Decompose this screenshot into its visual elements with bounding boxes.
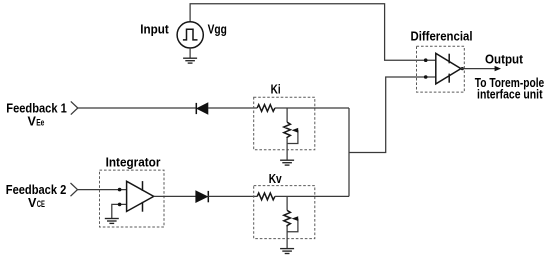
dashed box Differencial	[417, 46, 465, 92]
svg-text:Input: Input	[140, 22, 169, 37]
svg-text:Feedback 1: Feedback 1	[6, 101, 67, 116]
resistor (series, in Kv)	[257, 193, 275, 200]
svg-text:Ki: Ki	[271, 82, 281, 97]
resistor (series, in Ki)	[257, 105, 275, 112]
wire: Vgg source top to differential input 1	[190, 4, 436, 60]
rheostat wiper arrow (Ki)	[287, 128, 298, 144]
wire: Feedback 1 to diode D1	[78, 107, 197, 109]
svg-text:V: V	[28, 115, 37, 129]
svg-text:interface unit: interface unit	[477, 87, 543, 102]
junction dot output apex	[461, 67, 464, 70]
pulse source Vgg (circle with pulse waveform)	[177, 22, 203, 48]
ground (inside Integrator)	[105, 219, 119, 224]
ground (below Kv)	[280, 249, 294, 254]
ground (below Vgg source)	[183, 58, 197, 63]
op-amp U1 (Integrator)	[127, 181, 154, 212]
wire: Kv shunt stem down	[286, 196, 288, 210]
wire: Ki shunt stem down	[286, 108, 288, 122]
op-amp U2 (Differencial)	[436, 53, 461, 84]
junction dot differential input 1	[424, 58, 428, 62]
wire: Feedback 2 to integrator input +	[78, 189, 127, 191]
input port chevron Feedback 1	[71, 101, 78, 114]
dashed box Ki	[254, 97, 315, 150]
svg-text:Differencial: Differencial	[411, 28, 473, 43]
wire: integrator input 2 to ground branch	[112, 204, 127, 218]
rheostat (variable resistor, in Kv)	[284, 210, 291, 226]
wire: node bus to differential input 2	[349, 77, 436, 153]
wire: diode D2 to resistor in Kv	[208, 195, 257, 197]
svg-text:Ee: Ee	[36, 118, 44, 128]
wire: Kv resistor to node at x349	[275, 195, 349, 197]
svg-text:Vgg: Vgg	[208, 22, 227, 37]
junction dot integrator input 1	[118, 188, 122, 192]
dashed box Integrator	[100, 170, 165, 227]
svg-text:Kv: Kv	[269, 171, 283, 186]
rheostat wiper arrow (Kv)	[287, 216, 298, 232]
svg-text:V: V	[28, 196, 37, 210]
wire: output with arrowhead	[461, 66, 501, 71]
junction dot differential input 2	[424, 75, 428, 79]
rheostat (variable resistor, in Ki)	[284, 122, 291, 138]
wire: Kv rheostat to ground	[286, 227, 288, 249]
wire: diode D1 to resistor in Ki	[208, 107, 257, 109]
wire: integrator output to diode D2	[154, 195, 196, 197]
diode D1 (pointing left)	[196, 103, 208, 114]
wire: source bottom to ground	[189, 48, 191, 58]
wire: Ki rheostat to ground	[286, 138, 288, 160]
ground (below Ki)	[280, 160, 294, 165]
wire: Ki resistor to node at x349	[275, 107, 349, 109]
input port chevron Feedback 2	[71, 183, 78, 196]
diode D2 (pointing right)	[196, 191, 209, 202]
svg-text:Integrator: Integrator	[106, 155, 161, 170]
junction dot integrator input 2	[118, 203, 122, 207]
wire: node bus vertical x349 joining Ki and Kv outputs	[348, 108, 350, 196]
svg-text:CE: CE	[37, 199, 45, 209]
svg-text:Feedback 2: Feedback 2	[6, 182, 67, 197]
svg-text:Output: Output	[485, 51, 524, 66]
dashed box Kv	[254, 186, 315, 239]
